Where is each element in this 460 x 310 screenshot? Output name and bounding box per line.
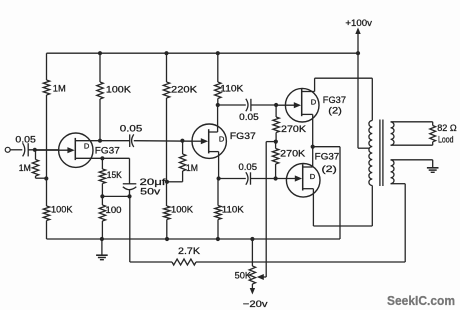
- transformer T1 secondary upper winding: [391, 122, 394, 145]
- power -20v terminal arrow: [250, 288, 255, 295]
- resistor R 100K (Q1 drain load): [97, 82, 103, 99]
- wire bottom ground rail: [47, 238, 341, 240]
- svg-text:D: D: [219, 134, 225, 143]
- label 0.05 (interstage cap): [120, 124, 143, 134]
- wire secondary upper bottom lead: [391, 144, 433, 146]
- label 270K (upper): [281, 124, 307, 134]
- node junction lower 100K to rail: [165, 237, 169, 241]
- svg-text:0.05: 0.05: [15, 135, 36, 145]
- resistor R 2.7K feedback: [172, 259, 196, 265]
- capacitor C4 0.05 to Q3: [246, 99, 251, 111]
- label 270K (lower): [280, 148, 306, 158]
- svg-text:(2): (2): [328, 106, 342, 116]
- node Q4 gate junction: [274, 176, 278, 180]
- capacitor C1 0.05 input coupling: [23, 143, 29, 156]
- resistor R 270K (upper): [273, 105, 279, 142]
- node junction 100 resistor to rail: [100, 237, 104, 241]
- wire secondary upper top lead: [391, 121, 433, 123]
- resistor R 110K (Q2 source): [215, 179, 221, 240]
- label (2) (Q3): [328, 106, 342, 116]
- capacitor C2 0.05 interstage: [130, 134, 134, 147]
- label Load: [438, 134, 454, 144]
- node Q3 gate junction: [274, 103, 278, 107]
- wire Q1 drain to C2: [100, 140, 130, 142]
- resistor R 110K (Q2 drain load): [215, 82, 221, 99]
- svg-text:110K: 110K: [220, 84, 244, 94]
- wire feedback line to secondary return: [196, 261, 405, 263]
- capacitor C5 0.05 to Q4: [246, 172, 251, 184]
- label 0.05 (C5): [239, 162, 258, 172]
- resistor R 270K (lower): [272, 142, 278, 179]
- label 2.7K: [178, 246, 201, 256]
- wire 110K to node: [217, 99, 219, 106]
- wire Q2 drain to C4: [218, 104, 246, 106]
- node junction pot top on rail: [250, 237, 254, 241]
- wire 270K midpoint to wiper feed: [266, 141, 276, 143]
- resistor R 220K: [163, 82, 169, 98]
- svg-text:1M: 1M: [186, 163, 198, 173]
- svg-text:50K: 50K: [235, 270, 252, 280]
- pin D label Q3: [311, 98, 317, 107]
- label FG37 (Q4): [315, 152, 340, 162]
- resistor R 82 ohm load: [430, 122, 436, 145]
- wiper arrow 50K pot: [257, 274, 266, 280]
- label 82 Ω: [437, 123, 457, 133]
- node Q2 gate 1M junction: [180, 139, 184, 143]
- label FG37 (Q2): [230, 131, 256, 141]
- label 50K: [235, 270, 252, 280]
- transistor Q1 FG37 first stage: [35, 133, 93, 167]
- label 1M (Q2 gate): [186, 163, 198, 173]
- wire 100K column lower: [99, 99, 101, 141]
- label +100v: [345, 18, 372, 28]
- label FG37 (Q3): [323, 95, 346, 105]
- node C3 bottom junction: [102, 194, 131, 198]
- svg-text:D: D: [310, 172, 316, 181]
- wire left column upper segment: [46, 53, 48, 80]
- wire secondary lower top lead to ground: [391, 159, 433, 161]
- wire input to C1: [10, 149, 22, 151]
- label 1M (input gate leak): [19, 163, 31, 173]
- transistor Q4 FG37 lower output: [276, 164, 320, 198]
- wire 220K column to divider node: [166, 98, 168, 206]
- transistor Q2 FG37 second stage: [192, 124, 226, 158]
- svg-text:SeekIC.com: SeekIC.com: [387, 293, 455, 308]
- svg-text:+100v: +100v: [345, 18, 372, 28]
- watermark SeekIC.com: [387, 293, 455, 308]
- transformer T1 core: [380, 120, 383, 187]
- svg-text:0.05: 0.05: [239, 162, 258, 172]
- wire 220K column upper: [166, 53, 168, 82]
- svg-text:0.05: 0.05: [120, 124, 143, 134]
- svg-text:100K: 100K: [171, 205, 194, 215]
- label 50v: [140, 187, 161, 197]
- node junction bias divider / input 1M: [44, 176, 48, 180]
- node Q1 drain junction: [98, 139, 102, 143]
- label 220K: [171, 84, 198, 94]
- svg-text:FG37: FG37: [95, 146, 120, 156]
- resistor R 15K (Q1 source): [99, 158, 105, 183]
- svg-text:FG37: FG37: [323, 95, 346, 105]
- wire Q4 drain lead up: [303, 147, 313, 167]
- node 270K midpoint junction: [274, 140, 278, 144]
- svg-text:2.7K: 2.7K: [178, 246, 201, 256]
- wire feedback drop from C3 junction: [129, 196, 131, 262]
- wire 100K lower to rail: [166, 220, 168, 240]
- node Q3 source / Q4 drain junction: [311, 145, 315, 149]
- svg-text:1M: 1M: [53, 84, 66, 94]
- svg-text:270K: 270K: [280, 148, 306, 158]
- wire source node to C3 top: [129, 158, 131, 184]
- pin D label Q2: [219, 134, 225, 143]
- resistor R 1M (Q2 gate): [168, 141, 186, 182]
- label -20v: [243, 299, 268, 309]
- wire left column middle segment: [46, 95, 48, 206]
- wire Q3 source lead down: [302, 114, 313, 146]
- resistor R 1M (left bias upper): [43, 80, 49, 95]
- transistor Q3 FG37 upper output: [276, 88, 319, 122]
- wire top +100V rail: [47, 52, 359, 54]
- svg-text:FG37: FG37: [230, 131, 256, 141]
- resistor R 100K (left bias lower): [43, 206, 49, 221]
- svg-text:FG37: FG37: [315, 152, 340, 162]
- wire Q4 source lead to transformer: [303, 189, 373, 226]
- wire Q1 source lead: [75, 157, 129, 159]
- wire 110K column upper: [217, 53, 219, 82]
- wire C2 to Q2 gate: [134, 140, 193, 143]
- input terminal circle: [5, 147, 10, 152]
- label 0.05 (C4): [239, 112, 259, 122]
- wire Q2 drain lead up: [209, 105, 218, 132]
- label 0.05 (input cap): [15, 135, 36, 145]
- label 110K (Q2 drain load): [220, 84, 244, 94]
- ground symbol main: [96, 239, 108, 260]
- node Q1 source junction: [100, 156, 104, 160]
- transformer T1 secondary lower winding: [391, 160, 394, 184]
- svg-text:D: D: [84, 141, 90, 150]
- label 100K (left bias lower): [51, 205, 73, 215]
- node input gate junction: [33, 148, 37, 152]
- label 110K (Q2 source): [222, 205, 245, 215]
- label 100 (Q1 source lower): [106, 205, 122, 215]
- node junction Q2 source 110K to rail: [216, 237, 220, 241]
- svg-text:220K: 220K: [171, 84, 198, 94]
- svg-text:0.05: 0.05: [239, 112, 259, 122]
- node 15K/100 junction: [100, 184, 104, 199]
- resistor R 100 (Q1 source lower): [99, 196, 105, 239]
- svg-text:20μf: 20μf: [140, 177, 167, 187]
- node junction +100V feed on rail: [356, 51, 360, 55]
- pin D label Q4: [310, 172, 316, 181]
- label 100K (lower divider): [171, 205, 194, 215]
- label 15K (Q1 source): [107, 170, 123, 180]
- label (2) (Q4): [322, 164, 337, 174]
- wire mid node to bottom rail riser: [313, 147, 340, 239]
- svg-text:(2): (2): [322, 164, 337, 174]
- wire +100v feed to primary center tap: [358, 53, 370, 148]
- svg-text:50v: 50v: [140, 187, 161, 197]
- svg-text:1M: 1M: [19, 163, 31, 173]
- wire primary bottom lead: [371, 186, 373, 227]
- node divider junction (1M Q2): [165, 180, 169, 184]
- power +100v terminal arrow: [355, 28, 360, 54]
- wire Q2 source to C5: [219, 178, 246, 180]
- ground symbol secondary: [427, 160, 439, 173]
- node Q2 source junction: [217, 176, 221, 180]
- potentiometer R 50K: [249, 239, 255, 289]
- wire Q2 source lead down: [209, 152, 219, 179]
- node junction 110K column on +100V rail: [216, 51, 220, 55]
- label 20μf: [140, 177, 167, 187]
- label FG37 (Q1): [95, 146, 120, 156]
- wire C1 to FET1 gate: [28, 149, 59, 151]
- label 100K (Q1 drain load): [106, 85, 132, 95]
- svg-text:100: 100: [106, 205, 122, 215]
- svg-text:15K: 15K: [107, 170, 123, 180]
- wire feedback line bottom: [130, 261, 172, 263]
- node junction 100K column on +100V rail: [98, 51, 102, 55]
- svg-text:82 Ω: 82 Ω: [437, 123, 457, 133]
- pin D label Q1: [84, 141, 90, 150]
- svg-text:Lood: Lood: [438, 134, 454, 144]
- svg-text:110K: 110K: [222, 205, 245, 215]
- svg-text:270K: 270K: [281, 124, 307, 134]
- wire 100K column upper: [99, 53, 101, 82]
- wire left column lower segment: [46, 221, 48, 240]
- svg-text:−20v: −20v: [243, 299, 268, 309]
- wire bias wiper feed vertical: [265, 142, 267, 277]
- svg-text:100K: 100K: [51, 205, 73, 215]
- label 1M (left bias upper): [53, 84, 66, 94]
- resistor R 100K (lower divider): [164, 206, 170, 220]
- wire C4 to Q3 gate node: [251, 104, 276, 106]
- wire secondary lower bottom lead: [391, 184, 406, 262]
- wire Q1 drain lead: [75, 140, 100, 142]
- wire C5 to Q4 gate node: [251, 178, 276, 180]
- node junction 220K column on +100V rail: [164, 51, 168, 55]
- svg-text:D: D: [311, 98, 317, 107]
- node Q2 drain junction: [216, 103, 220, 107]
- transformer T1 primary winding: [369, 121, 372, 186]
- capacitor C3 20uf 50v electrolytic: [123, 184, 137, 197]
- wire Q3 drain lead to transformer: [302, 78, 373, 120]
- svg-text:100K: 100K: [106, 85, 132, 95]
- resistor R 1M (input gate leak): [32, 150, 46, 178]
